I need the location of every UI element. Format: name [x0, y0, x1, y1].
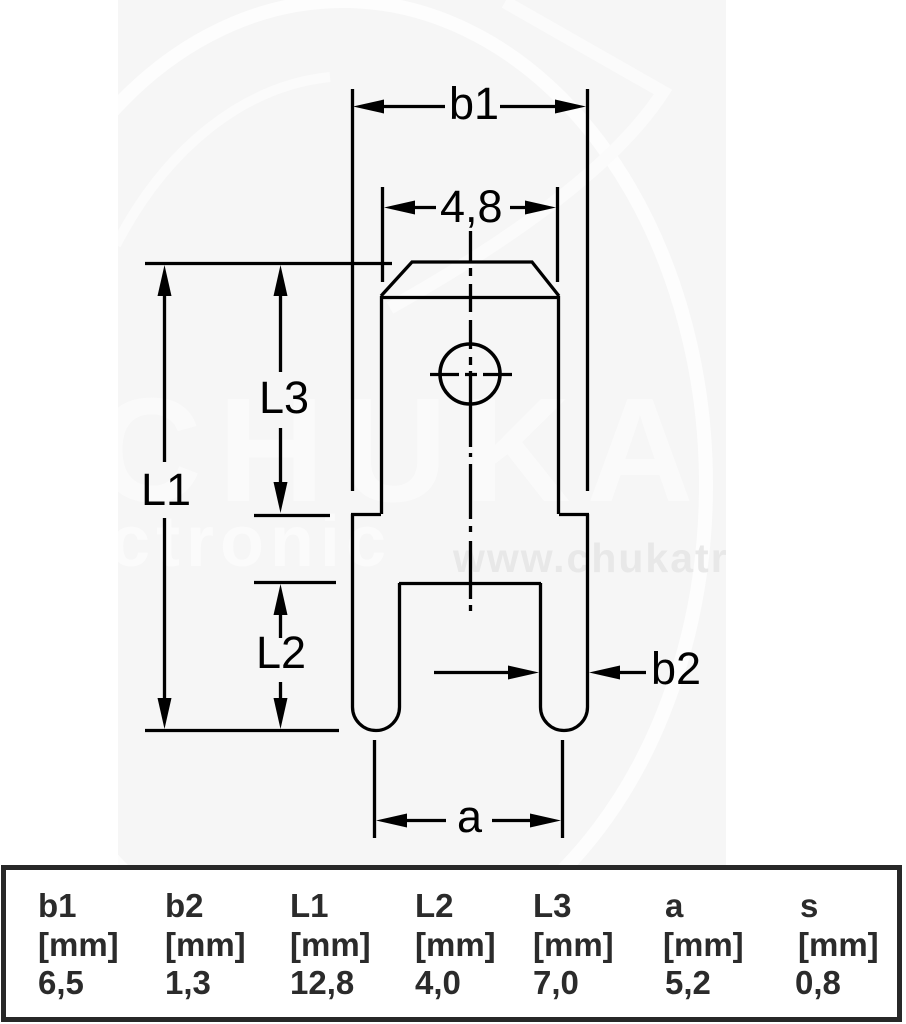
svg-text:L1: L1 [290, 887, 329, 924]
b1 left arrowhead [353, 100, 384, 114]
dimension L3 shaft lower [279, 428, 282, 488]
svg-text:a: a [665, 887, 684, 924]
L1 bottom arrowhead [158, 698, 172, 729]
dimension a left shaft [400, 819, 446, 822]
svg-text:[mm]: [mm] [165, 926, 246, 963]
svg-text:L2: L2 [415, 887, 454, 924]
b2 left-pointing arrowhead [589, 666, 620, 680]
svg-text:5,2: 5,2 [665, 964, 711, 1001]
svg-text:1,3: 1,3 [165, 964, 211, 1001]
watermark inner arc [116, 77, 330, 245]
dimension b1 right extension line [586, 89, 589, 491]
dimension L2 shaft lower [279, 682, 282, 706]
svg-text:b1: b1 [449, 78, 499, 129]
body left side [351, 514, 354, 707]
svg-text:[mm]: [mm] [663, 926, 744, 963]
right leg rounded bottom [541, 707, 588, 731]
table border [4, 868, 900, 1020]
svg-text:[mm]: [mm] [290, 926, 371, 963]
L2 top arrowhead [274, 584, 288, 615]
dimension b1 line right shaft [500, 105, 560, 108]
dimension L3 shaft upper [279, 285, 282, 372]
L3 top arrowhead [274, 265, 288, 296]
svg-text:[mm]: [mm] [798, 926, 879, 963]
svg-text:www.chukatr: www.chukatr [452, 535, 729, 581]
svg-text:L3: L3 [533, 887, 572, 924]
L3 bottom extension line [254, 514, 330, 517]
svg-text:b2: b2 [651, 643, 701, 694]
svg-text:4,8: 4,8 [440, 181, 503, 232]
hole circle [440, 344, 500, 404]
left leg rounded bottom [353, 707, 400, 731]
dimension b2 left shaft [434, 671, 515, 674]
b2 right-pointing arrowhead [508, 666, 539, 680]
svg-text:b1: b1 [38, 887, 77, 924]
bottom extension line [145, 729, 339, 732]
svg-text:[mm]: [mm] [415, 926, 496, 963]
4,8 left arrowhead [384, 201, 415, 215]
blade right side [557, 296, 560, 514]
svg-text:L3: L3 [259, 372, 309, 423]
svg-text:[mm]: [mm] [38, 926, 119, 963]
blade left side [380, 296, 383, 514]
dimension L1 shaft lower [163, 518, 166, 710]
svg-text:0,8: 0,8 [795, 964, 841, 1001]
dimension a left extension line [373, 740, 376, 838]
dimension b2 right shaft [615, 671, 646, 674]
right shoulder step [559, 513, 589, 516]
L1 top arrowhead [158, 265, 172, 296]
dimension b1 left extension line [351, 89, 354, 491]
svg-text:s: s [800, 887, 818, 924]
drawing panel background [118, 0, 726, 865]
dimension 4,8 right extension line [556, 187, 559, 282]
top reference extension line [145, 262, 392, 265]
body right side [586, 514, 589, 707]
svg-text:12,8: 12,8 [290, 964, 354, 1001]
a left arrowhead [376, 814, 407, 828]
svg-text:b2: b2 [165, 887, 204, 924]
blade tip trapezoid [381, 262, 559, 296]
dimension L2 shaft upper [279, 607, 282, 638]
svg-text:6,5: 6,5 [38, 964, 84, 1001]
L2 top extension line [254, 581, 336, 584]
crotch line between legs [399, 582, 541, 585]
a right arrowhead [530, 814, 561, 828]
hole horizontal centerline [430, 373, 512, 376]
watermark big ellipse swoosh [0, 1, 706, 969]
4,8 right arrowhead [525, 201, 556, 215]
vertical centerline dash-dot [469, 231, 472, 611]
svg-text:L1: L1 [141, 464, 191, 515]
svg-text:L2: L2 [256, 627, 306, 678]
dimension L1 shaft upper [163, 285, 166, 462]
svg-text:a: a [457, 791, 483, 842]
dimension 4,8 left extension line [381, 187, 384, 282]
svg-text:7,0: 7,0 [533, 964, 579, 1001]
blade tip bottom line [381, 296, 559, 299]
dimension a right shaft [492, 819, 535, 822]
dimension 4,8 line right shaft [510, 206, 527, 209]
left shoulder step [351, 513, 381, 516]
watermark chevron [390, 2, 663, 308]
L3 bottom arrowhead [274, 482, 288, 513]
left leg inner side [398, 583, 401, 707]
dimension b1 line left shaft [380, 105, 445, 108]
right leg inner side [539, 583, 542, 707]
svg-text:4,0: 4,0 [415, 964, 461, 1001]
L2 bottom arrowhead [274, 698, 288, 729]
svg-text:[mm]: [mm] [533, 926, 614, 963]
b1 right arrowhead [555, 100, 586, 114]
dimension 4,8 line left shaft [414, 206, 436, 209]
dimension a right extension line [561, 740, 564, 838]
